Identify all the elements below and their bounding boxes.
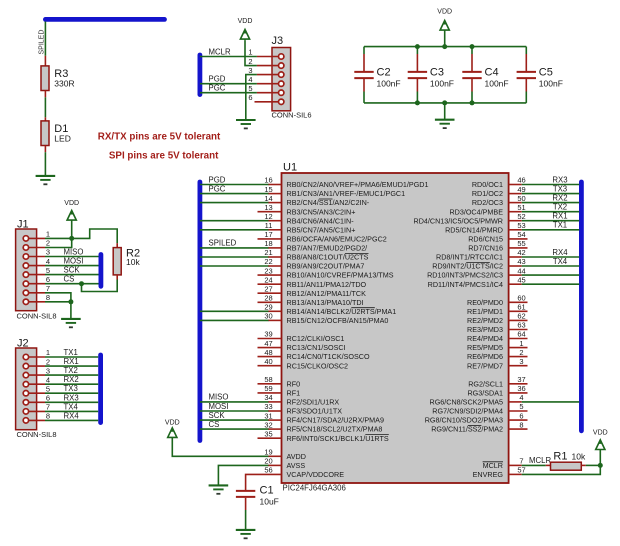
wire TX3 (U1 pin 49 to bus) — [522, 193, 580, 195]
svg-text:1: 1 — [248, 48, 252, 57]
capacitor C1 10uF — [236, 485, 279, 511]
svg-text:33: 33 — [264, 402, 272, 411]
svg-text:RE3/PMD3: RE3/PMD3 — [467, 325, 503, 334]
ground (AVSS) — [209, 485, 229, 493]
wire TX3 (J2 pin 5 to bus) — [45, 392, 98, 394]
wire CS (J1 pin 6 to bus) — [45, 283, 99, 285]
svg-text:TX4: TX4 — [553, 257, 568, 266]
svg-text:52: 52 — [517, 212, 525, 221]
svg-text:1: 1 — [46, 230, 50, 239]
svg-text:LED: LED — [54, 134, 71, 144]
svg-text:4: 4 — [248, 75, 252, 84]
svg-text:RX/TX pins are 5V tolerant: RX/TX pins are 5V tolerant — [98, 132, 221, 143]
svg-text:C2: C2 — [377, 67, 391, 79]
svg-text:VDD: VDD — [437, 9, 452, 16]
svg-text:RF1: RF1 — [287, 389, 301, 398]
svg-text:RE6/PMD6: RE6/PMD6 — [467, 352, 503, 361]
ground (C1) — [236, 530, 256, 538]
svg-text:RB10/AN10/CVREF/PMA13/TMS: RB10/AN10/CVREF/PMA13/TMS — [287, 271, 394, 280]
svg-text:AVSS: AVSS — [287, 461, 306, 470]
wire SPILED (bus to U1 pin 18) — [200, 247, 269, 249]
svg-text:TX4: TX4 — [64, 402, 79, 411]
svg-text:RF3/SDO1/U1TX: RF3/SDO1/U1TX — [287, 407, 343, 416]
svg-text:10k: 10k — [126, 257, 140, 267]
bus (U1 right: UART nets) — [579, 182, 584, 431]
wire U1 pin 11 to bus — [200, 229, 269, 231]
svg-text:5: 5 — [46, 384, 50, 393]
wire SCK (bus to U1 pin 31) — [200, 419, 269, 421]
svg-text:49: 49 — [517, 185, 525, 194]
svg-text:6: 6 — [248, 93, 252, 102]
svg-text:RX4: RX4 — [64, 411, 80, 420]
svg-text:RD7/CN16: RD7/CN16 — [468, 244, 503, 253]
wire PGD (bus to J3 pin 4) — [200, 83, 257, 85]
wire RX2 (U1 pin 50 to bus) — [522, 202, 580, 204]
wire AVDD (VDD to U1 pin 19) — [172, 437, 268, 456]
svg-text:C3: C3 — [430, 67, 444, 79]
svg-text:14: 14 — [264, 194, 272, 203]
svg-text:20: 20 — [264, 457, 272, 466]
svg-text:TX3: TX3 — [64, 384, 78, 393]
svg-text:AVDD: AVDD — [287, 452, 306, 461]
junction (J1 pin 8/ground) — [68, 299, 73, 304]
svg-text:330R: 330R — [54, 79, 74, 89]
svg-text:2: 2 — [519, 348, 523, 357]
svg-text:63: 63 — [517, 321, 525, 330]
svg-text:VDD: VDD — [165, 420, 180, 427]
svg-text:RB1/CN3/AN1/VREF-/EMUC1/PGC1: RB1/CN3/AN1/VREF-/EMUC1/PGC1 — [287, 189, 406, 198]
wire J1 pin 2 to VDD junction — [45, 238, 72, 247]
wire AVSS (U1 pin 20 to ground) — [218, 465, 268, 484]
svg-text:RC15/CLKO/OSC2: RC15/CLKO/OSC2 — [287, 361, 349, 370]
svg-text:RD0/OC1: RD0/OC1 — [472, 180, 503, 189]
svg-text:CONN-SIL6: CONN-SIL6 — [272, 111, 312, 120]
svg-text:RB14/AN14/BCLK2/U2RTS/PMA1: RB14/AN14/BCLK2/U2RTS/PMA1 — [287, 307, 397, 316]
svg-text:3: 3 — [46, 366, 50, 375]
svg-text:RB13/AN13/PMA10/TDI: RB13/AN13/PMA10/TDI — [287, 298, 364, 307]
resistor R1 10k — [546, 451, 586, 471]
svg-text:2: 2 — [46, 239, 50, 248]
svg-text:47: 47 — [264, 339, 272, 348]
svg-text:SPILED: SPILED — [39, 30, 46, 55]
junction (C3 top rail) — [415, 44, 420, 49]
bus (J3 ICSP) — [197, 55, 202, 95]
svg-text:RF2/SDI1/U1RX: RF2/SDI1/U1RX — [287, 398, 340, 407]
U1 right pin numbers — [517, 176, 525, 475]
svg-text:TX2: TX2 — [64, 366, 78, 375]
svg-text:RC14/CN0/T1CK/SOSCO: RC14/CN0/T1CK/SOSCO — [287, 352, 370, 361]
svg-text:RB7/AN7/EMUD2/PGD2/: RB7/AN7/EMUD2/PGD2/ — [287, 244, 368, 253]
wire TX2 (U1 pin 51 to bus) — [522, 211, 580, 213]
capacitor C2 100nF — [354, 47, 400, 103]
svg-text:2: 2 — [248, 57, 252, 66]
svg-text:RX1: RX1 — [552, 212, 567, 221]
svg-text:MCLR: MCLR — [529, 456, 551, 465]
svg-text:36: 36 — [517, 384, 525, 393]
svg-text:MISO: MISO — [64, 248, 84, 257]
U1 left pin labels — [287, 180, 429, 479]
svg-text:RE4/PMD4: RE4/PMD4 — [467, 334, 503, 343]
svg-text:J3: J3 — [272, 35, 284, 47]
svg-text:57: 57 — [517, 466, 525, 475]
ground (LED branch) — [36, 176, 56, 184]
svg-text:RG9/CN11/SS2/PMA2: RG9/CN11/SS2/PMA2 — [431, 425, 503, 434]
svg-text:TX1: TX1 — [553, 221, 567, 230]
svg-text:RD10/INT3/PMCS2/IC3: RD10/INT3/PMCS2/IC3 — [427, 271, 503, 280]
svg-text:PIC24FJ64GA306: PIC24FJ64GA306 — [283, 484, 346, 493]
wire TX4 (J2 pin 7 to bus) — [45, 410, 98, 412]
svg-text:28: 28 — [264, 294, 272, 303]
svg-text:RE1/PMD1: RE1/PMD1 — [467, 307, 503, 316]
wire VDD rail (top) — [364, 46, 526, 48]
svg-text:39: 39 — [264, 330, 272, 339]
resistor R3 — [41, 56, 75, 98]
junction (VDD top rail) — [442, 44, 447, 49]
svg-text:PGC: PGC — [209, 184, 226, 193]
svg-text:C5: C5 — [539, 67, 553, 79]
power flag VDD (J1) — [64, 200, 79, 239]
svg-text:37: 37 — [517, 375, 525, 384]
svg-text:100nF: 100nF — [485, 79, 509, 89]
wire TX4 (U1 pin 43 to bus) — [522, 265, 580, 267]
capacitor C5 100nF — [517, 47, 563, 103]
power flag VDD (MCLR pull-up) — [593, 430, 608, 466]
svg-text:RD5/CN14/PMRD: RD5/CN14/PMRD — [445, 225, 503, 234]
svg-text:60: 60 — [517, 294, 525, 303]
wire PGC (bus to J3 pin 5) — [200, 92, 257, 94]
svg-text:VDD: VDD — [64, 200, 79, 207]
svg-text:2: 2 — [46, 357, 50, 366]
svg-text:10uF: 10uF — [260, 497, 279, 507]
svg-text:5: 5 — [248, 84, 252, 93]
svg-text:15: 15 — [264, 185, 272, 194]
svg-text:RF0: RF0 — [287, 379, 301, 388]
svg-text:RB6/OCFA/AN6/EMUC2/PGC2: RB6/OCFA/AN6/EMUC2/PGC2 — [287, 235, 387, 244]
ground (J1) — [61, 319, 81, 327]
capacitor C3 100nF — [408, 47, 454, 103]
wire U1 pin 44 to bus — [522, 274, 580, 276]
svg-text:22: 22 — [264, 257, 272, 266]
svg-text:RB2/CN4/SS1/AN2/C2IN-: RB2/CN4/SS1/AN2/C2IN- — [287, 198, 370, 207]
svg-text:RF4/CN17/SDA2/U2RX/PMA9: RF4/CN17/SDA2/U2RX/PMA9 — [287, 416, 384, 425]
svg-text:31: 31 — [264, 411, 272, 420]
svg-text:PGD: PGD — [209, 75, 226, 84]
svg-text:RX2: RX2 — [552, 193, 567, 202]
svg-text:RD9/INT2/U1CTS/IC2: RD9/INT2/U1CTS/IC2 — [432, 262, 503, 271]
wire RX3 (J2 pin 6 to bus) — [45, 401, 98, 403]
svg-text:VDD: VDD — [238, 18, 253, 25]
svg-text:RG7/CN9/SDI2/PMA4: RG7/CN9/SDI2/PMA4 — [432, 407, 503, 416]
svg-text:SPILED: SPILED — [209, 239, 237, 248]
svg-text:11: 11 — [265, 221, 273, 230]
svg-text:RD8/INT1/RTCC/IC1: RD8/INT1/RTCC/IC1 — [436, 253, 503, 262]
wire MOSI (bus to U1 pin 33) — [200, 410, 269, 412]
svg-text:3: 3 — [46, 248, 50, 257]
svg-text:RG8/CN10/SDO2/PMA3: RG8/CN10/SDO2/PMA3 — [425, 416, 503, 425]
bus SPILED (top-left horizontal) — [45, 17, 164, 22]
svg-text:RB11/AN11/PMA12/TDO: RB11/AN11/PMA12/TDO — [287, 280, 367, 289]
svg-text:RB15/CN12/OCFB/AN15/PMA0: RB15/CN12/OCFB/AN15/PMA0 — [287, 316, 389, 325]
wire VCAP (U1 pin 56 to C1) — [246, 474, 282, 490]
ground (decoupling) — [435, 120, 455, 128]
svg-text:RX3: RX3 — [64, 393, 79, 402]
wire RX4 (J2 pin 8 to bus) — [45, 419, 98, 421]
wire ENVREG (U1 pin 57 to VDD junction) — [522, 465, 601, 474]
junction (CS/R2) — [79, 281, 84, 286]
svg-text:RE5/PMD5: RE5/PMD5 — [467, 343, 503, 352]
svg-text:RD11/INT4/PMCS1/IC4: RD11/INT4/PMCS1/IC4 — [428, 280, 503, 289]
U1 left pin numbers — [264, 176, 272, 475]
svg-text:32: 32 — [264, 420, 272, 429]
svg-text:SPI pins are 5V tolerant: SPI pins are 5V tolerant — [109, 151, 219, 162]
svg-text:6: 6 — [46, 275, 50, 284]
svg-text:RD1/OC2: RD1/OC2 — [472, 189, 503, 198]
wire RX1 (J2 pin 2 to bus) — [45, 365, 98, 367]
resistor R2 10k — [113, 243, 140, 279]
wire U1 pin 12 to bus — [200, 220, 269, 222]
svg-text:46: 46 — [517, 176, 525, 185]
wire PGC (bus to U1 pin 15) — [200, 193, 269, 195]
svg-text:RX2: RX2 — [64, 375, 79, 384]
wire J1 pin 8 to ground — [45, 301, 71, 303]
junction (ground bottom rail) — [442, 100, 447, 105]
svg-text:C4: C4 — [485, 67, 499, 79]
svg-text:1: 1 — [46, 348, 50, 357]
bus (J2 UART) — [98, 355, 103, 423]
wire R3 to D1 — [44, 97, 46, 117]
svg-text:RX4: RX4 — [552, 248, 568, 257]
svg-text:C1: C1 — [260, 485, 274, 497]
svg-text:RX3: RX3 — [552, 175, 567, 184]
wire U1 pin 22 to bus — [200, 265, 269, 267]
svg-text:58: 58 — [264, 375, 272, 384]
connector J2 CONN-SIL8 — [16, 338, 57, 440]
junction (R1/ENVREG/VDD) — [598, 463, 603, 468]
svg-text:100nF: 100nF — [539, 79, 563, 89]
power flag VDD (J3) — [238, 18, 253, 41]
U1 right pin labels — [414, 180, 504, 479]
svg-text:27: 27 — [264, 284, 272, 293]
svg-text:43: 43 — [517, 257, 525, 266]
wire SPILED bus to R3 — [44, 22, 46, 56]
power flag VDD (decoupling rail) — [437, 9, 452, 47]
svg-text:34: 34 — [264, 393, 272, 402]
wire SCK (J1 pin 5 to bus) — [45, 274, 99, 276]
wire CS (bus to U1 pin 32) — [200, 428, 269, 430]
U1 left pin stubs — [258, 185, 282, 466]
svg-text:RB8/AN8/C1OUT/U2CTS: RB8/AN8/C1OUT/U2CTS — [287, 253, 369, 262]
wire RX3 (U1 pin 46 to bus) — [522, 184, 580, 186]
junction (C4 bottom rail) — [470, 100, 475, 105]
connector J1 CONN-SIL8 — [16, 219, 57, 321]
svg-text:12: 12 — [264, 212, 272, 221]
svg-text:MISO: MISO — [209, 393, 229, 402]
wire TX2 (J2 pin 3 to bus) — [45, 374, 98, 376]
svg-text:8: 8 — [519, 420, 523, 429]
svg-text:RD4/CN13/IC5/OC5/PMWR: RD4/CN13/IC5/OC5/PMWR — [414, 216, 503, 225]
svg-text:4: 4 — [46, 257, 50, 266]
svg-text:45: 45 — [517, 275, 525, 284]
wire MCLR (bus to J3 pin 1) — [200, 56, 257, 58]
wire U1 pin 45 to bus — [522, 283, 580, 285]
svg-text:RE7/PMD7: RE7/PMD7 — [467, 361, 503, 370]
svg-text:8: 8 — [46, 293, 50, 302]
wire PGD (bus to U1 pin 16) — [200, 184, 269, 186]
svg-text:48: 48 — [264, 348, 272, 357]
wire J1 pin 7 to ground net — [45, 293, 71, 302]
svg-text:3: 3 — [248, 66, 252, 75]
wire TX1 (U1 pin 53 to bus) — [522, 229, 580, 231]
svg-text:42: 42 — [517, 248, 525, 257]
svg-text:56: 56 — [264, 466, 272, 475]
svg-text:VDD: VDD — [593, 430, 608, 437]
wire U1 pin 30 to bus — [200, 319, 269, 321]
wire RX1 (U1 pin 52 to bus) — [522, 220, 580, 222]
svg-text:29: 29 — [264, 303, 272, 312]
svg-text:7: 7 — [46, 403, 50, 412]
svg-text:RE2/PMD2: RE2/PMD2 — [467, 316, 503, 325]
wire U1 pin 21 to bus — [200, 256, 269, 258]
svg-text:18: 18 — [264, 239, 272, 248]
svg-text:RG3/SDA1: RG3/SDA1 — [467, 389, 503, 398]
svg-text:CONN-SIL8: CONN-SIL8 — [17, 311, 57, 320]
svg-text:61: 61 — [517, 303, 525, 312]
wire J3 pin 3 to ground — [246, 75, 257, 120]
bus (U1 left: ICSP/SPI/LED nets) — [197, 182, 202, 441]
svg-text:23: 23 — [264, 266, 272, 275]
svg-text:TX3: TX3 — [553, 184, 567, 193]
svg-text:CS: CS — [64, 275, 75, 284]
svg-text:RC12/CLKI/OSC1: RC12/CLKI/OSC1 — [287, 334, 345, 343]
wire RX4 (U1 pin 42 to bus) — [522, 256, 580, 258]
wire U1 pin 29 to bus — [200, 310, 269, 312]
ground (J3) — [236, 120, 256, 128]
svg-text:MOSI: MOSI — [209, 402, 229, 411]
svg-text:RF5/CN18/SCL2/U2TX/PMA8: RF5/CN18/SCL2/U2TX/PMA8 — [287, 425, 383, 434]
svg-text:R1: R1 — [553, 451, 567, 463]
svg-text:SCK: SCK — [209, 411, 226, 420]
svg-text:5: 5 — [46, 266, 50, 275]
junction (J1 pin 1/VDD) — [69, 236, 74, 241]
wire TX1 (J2 pin 1 to bus) — [45, 356, 98, 358]
svg-text:CS: CS — [209, 420, 220, 429]
power flag VDD (AVDD) — [165, 420, 180, 438]
wire J1 ground stem — [70, 302, 72, 319]
wire R1 to VDD junction — [586, 464, 601, 466]
svg-text:MOSI: MOSI — [64, 257, 84, 266]
svg-text:10k: 10k — [572, 452, 586, 462]
svg-text:50: 50 — [517, 194, 525, 203]
junction (C3 bottom rail) — [415, 100, 420, 105]
svg-text:RG6/CN8/SCK2/PMA5: RG6/CN8/SCK2/PMA5 — [430, 398, 504, 407]
svg-text:RD3/OC4/PMBE: RD3/OC4/PMBE — [449, 207, 503, 216]
junction (C4 top rail) — [470, 44, 475, 49]
svg-text:ENVREG: ENVREG — [473, 470, 504, 479]
svg-text:64: 64 — [517, 330, 525, 339]
svg-text:TX2: TX2 — [553, 203, 567, 212]
svg-text:7: 7 — [46, 284, 50, 293]
wire VDD to J3 pin 2 — [245, 41, 257, 66]
svg-text:RB0/CN2/AN0/VREF+/PMA6/EMUD1/P: RB0/CN2/AN0/VREF+/PMA6/EMUD1/PGD1 — [287, 180, 429, 189]
svg-text:RB3/CN5/AN3/C2IN+: RB3/CN5/AN3/C2IN+ — [287, 207, 356, 216]
capacitor C4 100nF — [462, 47, 508, 103]
svg-text:21: 21 — [264, 248, 272, 257]
wire MISO (J1 pin 3 to bus) — [45, 256, 99, 258]
svg-text:RC13/CN1/SOSCI: RC13/CN1/SOSCI — [287, 343, 346, 352]
IC U1 PIC24FJ64GA306 body — [282, 162, 509, 493]
svg-text:1: 1 — [519, 339, 523, 348]
U1 right pin stubs — [509, 185, 528, 475]
svg-text:MCLR: MCLR — [209, 47, 231, 56]
svg-text:RB12/AN12/PMA11/TCK: RB12/AN12/PMA11/TCK — [287, 289, 367, 298]
svg-text:RX1: RX1 — [64, 357, 79, 366]
wire U1 pin 4 to bus — [522, 401, 580, 403]
svg-text:55: 55 — [517, 239, 525, 248]
svg-text:53: 53 — [517, 221, 525, 230]
svg-text:PGD: PGD — [209, 175, 226, 184]
svg-text:CONN-SIL8: CONN-SIL8 — [17, 430, 57, 439]
wire rail to ground (decoupling) — [444, 103, 446, 119]
svg-text:RD2/OC3: RD2/OC3 — [472, 198, 503, 207]
wire MISO (bus to U1 pin 34) — [200, 401, 269, 403]
svg-text:U1: U1 — [283, 162, 297, 174]
svg-text:100nF: 100nF — [377, 79, 401, 89]
svg-text:100nF: 100nF — [430, 79, 454, 89]
svg-text:6: 6 — [519, 411, 523, 420]
wire RX2 (J2 pin 4 to bus) — [45, 383, 98, 385]
LED D1 — [41, 117, 71, 152]
svg-text:51: 51 — [517, 203, 525, 212]
wire ground rail (bottom) — [364, 102, 526, 104]
wire C1 to ground — [245, 510, 247, 529]
wire U1 pin 14 to bus — [200, 202, 269, 204]
svg-text:35: 35 — [264, 429, 272, 438]
svg-text:5: 5 — [519, 402, 523, 411]
svg-text:PGC: PGC — [209, 84, 226, 93]
wire J1 pin 1 to VDD and R2 — [45, 229, 117, 243]
svg-text:24: 24 — [264, 275, 272, 284]
svg-text:6: 6 — [46, 394, 50, 403]
svg-text:8: 8 — [46, 412, 50, 421]
svg-text:RB9/AN9/C2OUT/PMA7: RB9/AN9/C2OUT/PMA7 — [287, 262, 365, 271]
svg-text:40: 40 — [264, 357, 272, 366]
wire MOSI (J1 pin 4 to bus) — [45, 265, 99, 267]
wire D1 to ground — [44, 152, 46, 175]
svg-text:30: 30 — [264, 312, 272, 321]
svg-text:3: 3 — [519, 357, 523, 366]
svg-text:17: 17 — [264, 230, 272, 239]
connector J3 CONN-SIL6 — [248, 35, 311, 120]
svg-text:RB4/CN6/AN4/C1IN-: RB4/CN6/AN4/C1IN- — [287, 216, 355, 225]
svg-text:TX1: TX1 — [64, 348, 78, 357]
svg-text:7: 7 — [519, 457, 523, 466]
svg-text:44: 44 — [517, 266, 525, 275]
svg-text:19: 19 — [264, 448, 272, 457]
svg-text:RD6/CN15: RD6/CN15 — [468, 235, 503, 244]
svg-text:SCK: SCK — [64, 266, 81, 275]
svg-text:13: 13 — [264, 203, 272, 212]
wire MCLR (U1 pin 7 to R1) — [522, 464, 546, 466]
bus (J1 SPI) — [99, 255, 104, 287]
svg-text:54: 54 — [517, 230, 525, 239]
svg-text:RB5/CN7/AN5/C1IN+: RB5/CN7/AN5/C1IN+ — [287, 225, 356, 234]
svg-text:RF6/INT0/SCK1/BCLK1/U1RTS: RF6/INT0/SCK1/BCLK1/U1RTS — [287, 434, 389, 443]
wire R2 to CS junction — [82, 280, 118, 292]
svg-text:RG2/SCL1: RG2/SCL1 — [468, 379, 503, 388]
svg-text:59: 59 — [264, 384, 272, 393]
svg-text:4: 4 — [519, 393, 523, 402]
svg-text:62: 62 — [517, 312, 525, 321]
